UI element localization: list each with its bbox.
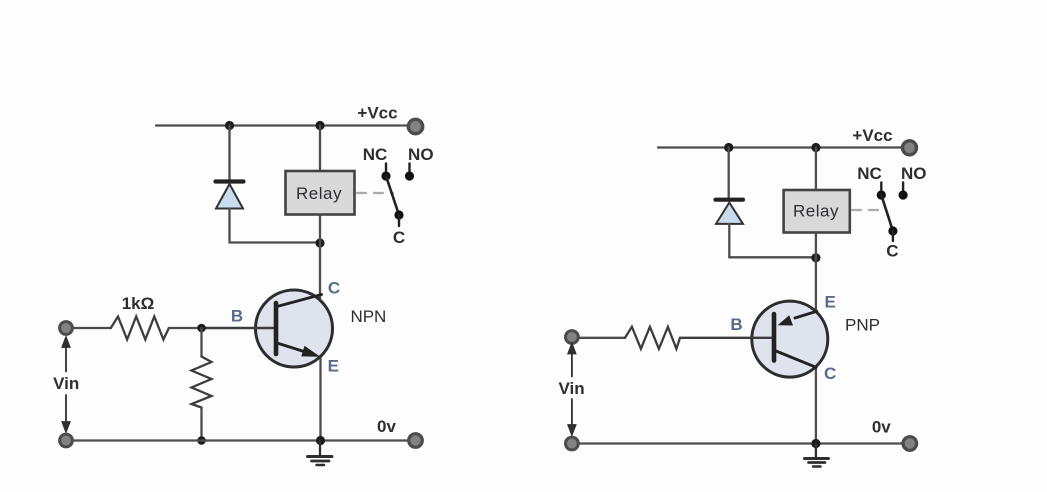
wire: common contact lead (left) bbox=[398, 215, 400, 226]
transistor Q2 base bar bbox=[772, 314, 777, 361]
ground symbol (right) bbox=[805, 444, 829, 467]
resistor R1 1k zigzag (left) bbox=[111, 317, 169, 340]
node: junction of diode branch on top rail (right) bbox=[724, 143, 733, 152]
svg-text:Vin: Vin bbox=[53, 374, 79, 393]
terminal Vin low (left) bbox=[60, 434, 73, 447]
wire: diode D1 anode-side vertical (left) bbox=[228, 126, 230, 181]
svg-text:+Vcc: +Vcc bbox=[852, 126, 892, 145]
svg-text:NC: NC bbox=[363, 145, 388, 164]
wire: diode D1 bottom vertical (left) bbox=[228, 209, 230, 243]
svg-text:Relay: Relay bbox=[296, 184, 342, 203]
node: junction of relay branch on top rail (left) bbox=[315, 121, 324, 130]
svg-text:C: C bbox=[328, 279, 340, 298]
resistor R2 pulldown zigzag (left) bbox=[192, 357, 212, 408]
transistor Q2 collector stroke bbox=[776, 351, 816, 367]
relay K2 box (right) bbox=[784, 190, 850, 233]
wire: pulldown resistor top lead (left) bbox=[200, 328, 202, 357]
terminal 0v (right) bbox=[903, 437, 917, 451]
svg-text:+Vcc: +Vcc bbox=[357, 104, 397, 123]
wire: Vin arrow upper segment (left) bbox=[62, 338, 69, 372]
svg-text:0v: 0v bbox=[377, 417, 396, 436]
ground symbol (left) bbox=[308, 441, 333, 466]
wire: base wire from divider node to base bar (left) bbox=[202, 327, 275, 329]
wire: dashed mechanical link relay to switch (left) bbox=[357, 192, 393, 194]
svg-text:B: B bbox=[231, 307, 243, 326]
svg-text:Relay: Relay bbox=[793, 202, 839, 221]
diode D2 triangle (right) bbox=[716, 203, 743, 224]
terminal +Vcc (right) bbox=[903, 141, 917, 155]
node: NO contact (right) bbox=[899, 190, 908, 199]
node: diode/relay/emitter junction (right) bbox=[811, 253, 820, 262]
diode D1 triangle (left) bbox=[216, 184, 243, 209]
node: emitter to rail junction (left) bbox=[316, 436, 325, 445]
switch arm SW1 (left) bbox=[386, 176, 399, 215]
svg-text:E: E bbox=[825, 293, 836, 312]
svg-text:B: B bbox=[730, 315, 742, 334]
svg-text:C: C bbox=[824, 364, 836, 383]
relay K1 box (left) bbox=[286, 171, 355, 215]
wire: input to resistor R3 (right) bbox=[579, 337, 625, 339]
node: pulldown to ground rail junction (left) bbox=[197, 436, 206, 445]
node: diode/relay/collector junction (left) bbox=[315, 238, 324, 247]
wire: NC contact lead (left) bbox=[385, 164, 387, 172]
node: NC contact (right) bbox=[877, 190, 886, 199]
node: junction of relay branch on top rail (right) bbox=[811, 143, 820, 152]
wire: Vin arrow lower segment (left) bbox=[62, 395, 69, 432]
wire: diode bottom horizontal to emitter node (right) bbox=[729, 256, 816, 258]
terminal Vin input (right) bbox=[566, 331, 579, 344]
svg-text:NPN: NPN bbox=[350, 307, 386, 326]
transistor Q1 emitter stroke with arrow bbox=[277, 343, 320, 357]
svg-text:1kΩ: 1kΩ bbox=[122, 294, 155, 313]
node: base divider junction (left) bbox=[197, 324, 206, 333]
switch arm SW2 (right) bbox=[881, 195, 893, 231]
node: common contact C (left) bbox=[394, 210, 403, 219]
node: NO contact (left) bbox=[405, 171, 414, 180]
resistor R3 zigzag (right) bbox=[625, 327, 680, 349]
terminal 0v (left) bbox=[409, 434, 423, 448]
wire: common contact lead (right) bbox=[892, 231, 894, 241]
wire: left +Vcc top rail bbox=[156, 124, 409, 126]
svg-text:E: E bbox=[328, 357, 339, 376]
wire: input to resistor R1 (left) bbox=[73, 327, 111, 329]
terminal +Vcc (left) bbox=[408, 119, 422, 133]
svg-text:C: C bbox=[393, 228, 405, 247]
transistor Q2 emitter stroke with inward arrow bbox=[778, 311, 817, 325]
transistor Q2 PNP body bbox=[752, 301, 828, 377]
wire: Vin arrow upper segment (right) bbox=[568, 344, 575, 377]
wire: resistor R1 to base node (left) bbox=[169, 327, 202, 329]
diode D1 cathode bar (left) bbox=[216, 179, 244, 183]
node: NC contact (left) bbox=[381, 171, 390, 180]
wire: diode bottom horizontal to collector node (left) bbox=[230, 241, 321, 243]
wire: relay coil top lead (right) bbox=[815, 148, 817, 191]
svg-text:NC: NC bbox=[857, 164, 882, 183]
node: common contact C (right) bbox=[888, 226, 897, 235]
terminal Vin input (left) bbox=[60, 322, 73, 335]
wire: dashed mechanical link relay to switch (right) bbox=[852, 209, 886, 211]
wire: base wire from resistor to base bar (right) bbox=[680, 337, 772, 339]
wire: pulldown resistor bottom lead (left) bbox=[200, 408, 202, 441]
wire: NO contact lead (right) bbox=[902, 183, 904, 191]
transistor Q1 base bar bbox=[274, 303, 279, 354]
wire: 0v bottom rail (left) bbox=[66, 439, 409, 441]
wire: diode D2 top vertical (right) bbox=[728, 148, 730, 199]
svg-text:C: C bbox=[886, 242, 898, 261]
wire: collector to ground rail (right) bbox=[815, 366, 817, 444]
svg-text:PNP: PNP bbox=[845, 316, 880, 335]
wire: relay coil bottom lead / emitter wire (right) bbox=[815, 233, 817, 314]
wire: 0v bottom rail (right) bbox=[572, 442, 903, 444]
wire: NC contact lead (right) bbox=[880, 183, 882, 191]
wire: relay coil bottom lead / collector wire (left) bbox=[319, 215, 321, 303]
wire: Vin arrow lower segment (right) bbox=[568, 399, 575, 435]
transistor Q1 NPN body bbox=[256, 290, 333, 367]
transistor Q1 collector stroke bbox=[277, 295, 322, 307]
svg-text:NO: NO bbox=[901, 164, 927, 183]
terminal Vin low (right) bbox=[566, 437, 579, 450]
svg-text:NO: NO bbox=[408, 145, 434, 164]
wire: NO contact lead (left) bbox=[408, 164, 410, 172]
wire: emitter to ground rail (left) bbox=[319, 356, 321, 441]
diode D2 cathode bar (right) bbox=[716, 198, 744, 202]
wire: right +Vcc top rail bbox=[658, 146, 903, 148]
node: collector to rail junction (right) bbox=[811, 439, 820, 448]
svg-text:0v: 0v bbox=[872, 418, 891, 437]
wire: diode D2 bottom vertical (right) bbox=[728, 224, 730, 257]
svg-text:Vin: Vin bbox=[559, 379, 585, 398]
wire: relay coil top lead (left) bbox=[319, 126, 321, 172]
node: junction of diode branch on top rail (left) bbox=[225, 121, 234, 130]
